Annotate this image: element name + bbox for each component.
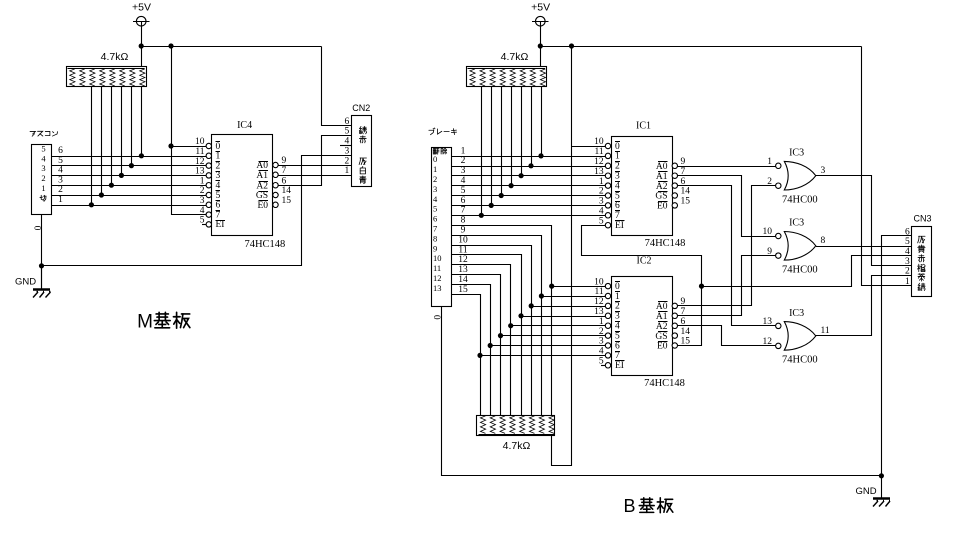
wire J2 pin11 down to IC2 and RN3 bbox=[452, 255, 522, 416]
svg-text:74HC148: 74HC148 bbox=[645, 238, 686, 249]
svg-text:5: 5 bbox=[461, 186, 466, 196]
node RN1-wire1 bbox=[89, 202, 94, 207]
svg-text:9: 9 bbox=[282, 156, 287, 166]
svg-text:11: 11 bbox=[433, 263, 441, 273]
node wire8-IC2 input bbox=[549, 284, 554, 289]
svg-text:14: 14 bbox=[458, 275, 468, 285]
wire gate C output to CN3 pin2 bbox=[816, 276, 912, 336]
node wire15-IC2 input bbox=[477, 353, 482, 358]
resistor network RN3 4.7k (bottom) bbox=[477, 416, 555, 436]
svg-text:9: 9 bbox=[461, 226, 466, 236]
svg-text:2: 2 bbox=[216, 161, 221, 171]
wire J2 pin4 to IC1 input bbox=[451, 185, 606, 187]
wire RN2 pin to brake wire 1 bbox=[541, 87, 543, 157]
svg-text:IC3: IC3 bbox=[789, 148, 804, 159]
IC U-IC1 74HC148 body bbox=[612, 137, 673, 236]
svg-text:12: 12 bbox=[594, 297, 604, 307]
svg-text:10: 10 bbox=[458, 235, 468, 245]
svg-text:7: 7 bbox=[615, 351, 620, 361]
svg-text:7: 7 bbox=[216, 210, 221, 220]
svg-text:2: 2 bbox=[200, 186, 205, 196]
wire GND to CN3 pin6 bbox=[882, 236, 912, 476]
wire J2 pin1 to IC1 input bbox=[451, 156, 606, 158]
wire IC4 EI stub bbox=[202, 224, 206, 226]
svg-text:5: 5 bbox=[905, 237, 910, 247]
node +5V to input 0 junction bbox=[168, 143, 173, 148]
svg-text:GS: GS bbox=[655, 192, 667, 202]
node wire9-IC2 input bbox=[539, 293, 544, 298]
svg-text:13: 13 bbox=[195, 167, 205, 177]
svg-text:2: 2 bbox=[461, 156, 466, 166]
svg-text:6: 6 bbox=[461, 196, 466, 206]
node RN2-wire4 bbox=[509, 183, 514, 188]
node GND junction (M) bbox=[39, 263, 44, 268]
svg-text:8: 8 bbox=[461, 216, 466, 226]
svg-text:IC4: IC4 bbox=[237, 120, 252, 131]
svg-text:0: 0 bbox=[433, 154, 437, 164]
wire gate A output to CN3 pin3 bbox=[816, 176, 912, 266]
pin IC2 output GS (pin 14) bbox=[672, 333, 677, 338]
svg-text:A2: A2 bbox=[656, 322, 668, 332]
wire +5V rail (B) bbox=[541, 46, 862, 48]
svg-text:13: 13 bbox=[594, 307, 604, 317]
svg-text:EI: EI bbox=[615, 361, 624, 371]
svg-text:0: 0 bbox=[615, 282, 620, 292]
wire J1 pin6 to IC4 input bbox=[51, 156, 206, 158]
svg-text:2: 2 bbox=[615, 302, 620, 312]
svg-text:A1: A1 bbox=[656, 172, 668, 182]
wire RN2 pin to brake wire 2 bbox=[531, 87, 533, 167]
wire RN1 pin to wire5 bbox=[131, 87, 133, 166]
svg-text:A2: A2 bbox=[256, 181, 268, 191]
pin IC4 input 2 (pin 12) bbox=[206, 163, 211, 168]
svg-text:0: 0 bbox=[615, 142, 620, 152]
node wire13-IC2 input bbox=[498, 333, 503, 338]
node RN1-wire4 bbox=[119, 173, 124, 178]
wire +5V to IC4 input 0 bbox=[171, 146, 206, 148]
IC U-IC2 74HC148 body bbox=[612, 277, 673, 376]
label B board bbox=[641, 498, 653, 500]
wire IC1 A2 to gate C input 13 bbox=[678, 186, 776, 326]
wire J2 pin10 down to IC2 and RN3 bbox=[452, 246, 532, 416]
svg-text:GS: GS bbox=[256, 191, 268, 201]
wire GND rail to CN2 pin3 bbox=[42, 156, 352, 266]
svg-text:E0: E0 bbox=[257, 201, 268, 211]
wire J1 pin2 to IC4 input bbox=[51, 195, 206, 197]
wire to IC2 input 3 bbox=[521, 316, 606, 318]
svg-text:A1: A1 bbox=[656, 312, 668, 322]
svg-text:1: 1 bbox=[345, 166, 350, 176]
node wire11-IC2 input bbox=[518, 313, 523, 318]
wire +5V rail bbox=[141, 46, 322, 48]
svg-text:12: 12 bbox=[433, 273, 442, 283]
pin IC2 input 1 (pin 11) bbox=[605, 293, 610, 298]
pin IC1 output GS (pin 14) bbox=[672, 193, 677, 198]
svg-text:EI: EI bbox=[615, 221, 624, 231]
pin IC4 input 6 (pin 3) bbox=[206, 202, 211, 207]
svg-text:A2: A2 bbox=[656, 182, 668, 192]
svg-text:2: 2 bbox=[905, 267, 910, 277]
svg-text:11: 11 bbox=[594, 147, 603, 157]
wire +5V rail to CN2 pin6 bbox=[322, 47, 352, 126]
wire IC2 EI stub bbox=[601, 365, 606, 367]
svg-text:6: 6 bbox=[615, 201, 620, 211]
pin IC1 input 5 (pin 2) bbox=[605, 193, 610, 198]
svg-text:2: 2 bbox=[615, 162, 620, 172]
svg-text:4: 4 bbox=[615, 181, 620, 191]
svg-text:12: 12 bbox=[195, 157, 205, 167]
svg-text:A0: A0 bbox=[256, 161, 268, 171]
wire J1 pin5 to IC4 input bbox=[51, 165, 206, 167]
connector J2 brake bbox=[429, 130, 434, 134]
node RN1-wire6 bbox=[139, 153, 144, 158]
svg-text:15: 15 bbox=[282, 196, 292, 206]
pin IC2 input 4 (pin 1) bbox=[605, 323, 610, 328]
svg-text:1: 1 bbox=[615, 292, 620, 302]
svg-text:6: 6 bbox=[282, 176, 287, 186]
svg-text:4: 4 bbox=[599, 207, 604, 217]
svg-text:5: 5 bbox=[345, 127, 350, 137]
svg-text:5: 5 bbox=[41, 144, 45, 154]
wire J2 pin7 to IC1 input bbox=[451, 215, 606, 217]
node RN2-wire6 bbox=[489, 203, 494, 208]
svg-text:E0: E0 bbox=[657, 342, 668, 352]
pin IC4 output E0 (pin 15) bbox=[273, 202, 278, 207]
svg-text:1: 1 bbox=[767, 157, 772, 167]
svg-text:7: 7 bbox=[615, 211, 620, 221]
svg-text:4: 4 bbox=[599, 347, 604, 357]
svg-text:0: 0 bbox=[34, 225, 44, 230]
wire J2 pin6 to IC1 input bbox=[451, 205, 606, 207]
pin IC1 output A1 (pin 7) bbox=[672, 173, 677, 178]
svg-text:5: 5 bbox=[599, 216, 604, 226]
svg-text:3: 3 bbox=[615, 312, 620, 322]
svg-text:13: 13 bbox=[458, 265, 468, 275]
svg-text:EI: EI bbox=[216, 220, 225, 230]
wire to IC2 input 6 bbox=[490, 345, 606, 347]
wire J2 common to GND rail bbox=[442, 307, 882, 476]
svg-text:7: 7 bbox=[461, 206, 466, 216]
svg-text:13: 13 bbox=[594, 167, 604, 177]
svg-text:3: 3 bbox=[345, 146, 350, 156]
svg-text:1: 1 bbox=[216, 152, 221, 162]
svg-text:6: 6 bbox=[58, 146, 63, 156]
svg-text:9: 9 bbox=[681, 157, 686, 167]
svg-text:CN3: CN3 bbox=[913, 213, 931, 223]
svg-text:9: 9 bbox=[433, 243, 437, 253]
svg-text:3: 3 bbox=[599, 337, 604, 347]
svg-text:74HC00: 74HC00 bbox=[782, 265, 818, 276]
pin IC2 output A2 (pin 6) bbox=[672, 323, 677, 328]
wire J2 pin14 down to IC2 and RN3 bbox=[452, 285, 491, 416]
pin IC2 input 2 (pin 12) bbox=[605, 303, 610, 308]
node wire14-IC2 input bbox=[488, 343, 493, 348]
node +5V rail junction C bbox=[538, 43, 543, 48]
wire +5V to rail bbox=[141, 26, 143, 67]
pin IC1 EI bbox=[605, 223, 610, 228]
pin IC1 input 7 (pin 4) bbox=[605, 213, 610, 218]
pin IC4 input 1 (pin 11) bbox=[206, 153, 211, 158]
svg-text:10: 10 bbox=[195, 137, 205, 147]
pin IC2 input 3 (pin 13) bbox=[605, 313, 610, 318]
svg-text:4: 4 bbox=[461, 176, 466, 186]
svg-text:4: 4 bbox=[200, 206, 205, 216]
svg-text:GND: GND bbox=[15, 276, 36, 287]
svg-text:10: 10 bbox=[433, 253, 442, 263]
wire E0 net to CN3 pin4 bbox=[702, 256, 912, 287]
svg-text:4: 4 bbox=[345, 137, 350, 147]
pin IC4 input 7 (pin 4) bbox=[206, 212, 211, 217]
svg-text:11: 11 bbox=[458, 245, 467, 255]
svg-text:3: 3 bbox=[200, 196, 205, 206]
IC U-IC4 74HC148 body bbox=[212, 135, 273, 236]
svg-text:8: 8 bbox=[821, 236, 826, 246]
svg-text:0: 0 bbox=[216, 142, 221, 152]
node +5V rail junction A bbox=[139, 43, 144, 48]
pin IC1 input 1 (pin 11) bbox=[605, 153, 610, 158]
svg-text:12: 12 bbox=[594, 157, 604, 167]
pin IC2 output A0 (pin 9) bbox=[672, 303, 677, 308]
svg-text:IC1: IC1 bbox=[636, 120, 651, 131]
svg-text:+5V: +5V bbox=[132, 2, 151, 14]
wire IC2 A1 to gate B input 9 bbox=[678, 256, 776, 316]
pin IC4 EI bbox=[206, 222, 211, 227]
pin IC4 output A0 (pin 9) bbox=[273, 162, 278, 167]
svg-text:11: 11 bbox=[594, 287, 603, 297]
node E0 net branch bbox=[699, 284, 704, 289]
svg-text:5: 5 bbox=[216, 191, 221, 201]
wire IC1 A1 to gate B input 10 bbox=[678, 176, 776, 237]
pin IC1 output A2 (pin 6) bbox=[672, 183, 677, 188]
connector J1 master controller (mascon) bbox=[30, 131, 35, 134]
svg-text:3: 3 bbox=[433, 184, 437, 194]
pin IC1 input 6 (pin 3) bbox=[605, 203, 610, 208]
pin IC1 input 2 (pin 12) bbox=[605, 163, 610, 168]
wire to IC2 input 4 bbox=[511, 325, 606, 327]
pin IC1 output E0 (pin 15) bbox=[672, 203, 677, 208]
wire RN2 pin to brake wire 6 bbox=[491, 87, 493, 206]
svg-text:1: 1 bbox=[41, 183, 45, 193]
node RN2-wire3 bbox=[519, 173, 524, 178]
wire gate B output to CN3 pin5 bbox=[816, 246, 912, 248]
svg-text:10: 10 bbox=[763, 227, 773, 237]
svg-text:GS: GS bbox=[655, 332, 667, 342]
svg-text:IC2: IC2 bbox=[637, 256, 652, 267]
svg-text:1: 1 bbox=[905, 277, 910, 287]
wire RN1 pin to wire1 bbox=[91, 87, 93, 206]
wire J1 pin1 to IC4 input bbox=[51, 205, 206, 207]
svg-text:10: 10 bbox=[594, 277, 604, 287]
svg-text:IC3: IC3 bbox=[789, 308, 804, 319]
node +5V rail junction B bbox=[168, 43, 173, 48]
wire to IC2 input 5 bbox=[501, 335, 606, 337]
svg-text:1: 1 bbox=[58, 195, 63, 205]
wire +5V to IC1 input 0 bbox=[572, 146, 606, 148]
pin IC4 input 0 (pin 10) bbox=[206, 143, 211, 148]
svg-text:3: 3 bbox=[58, 175, 63, 185]
wire to IC2 input 1 bbox=[542, 296, 606, 298]
svg-text:7: 7 bbox=[433, 224, 437, 234]
wire CN2 pin4 stub bbox=[340, 145, 351, 147]
wire J1 common down bbox=[41, 215, 43, 290]
svg-text:11: 11 bbox=[195, 147, 204, 157]
node GND junction (B) bbox=[879, 473, 884, 478]
svg-text:13: 13 bbox=[433, 283, 442, 293]
svg-text:3: 3 bbox=[615, 172, 620, 182]
node RN1-wire5 bbox=[129, 163, 134, 168]
svg-text:B: B bbox=[623, 496, 635, 516]
svg-text:2: 2 bbox=[433, 174, 437, 184]
wire J2 pin12 down to IC2 and RN3 bbox=[452, 265, 511, 416]
wire J2 pin15 down to IC2 and RN3 bbox=[452, 295, 481, 416]
wire RN2 pin to brake wire 3 bbox=[521, 87, 523, 176]
wire J2 pin5 to IC1 input bbox=[451, 195, 606, 197]
wire RN1 pin to wire2 bbox=[101, 87, 103, 196]
wire IC2 A2 to gate C input 12 bbox=[678, 326, 776, 346]
svg-text:3: 3 bbox=[905, 257, 910, 267]
svg-text:6: 6 bbox=[905, 227, 910, 237]
svg-text:3: 3 bbox=[599, 197, 604, 207]
node RN2-wire2 bbox=[528, 163, 533, 168]
svg-text:14: 14 bbox=[681, 327, 691, 337]
svg-text:1: 1 bbox=[200, 176, 205, 186]
pin IC1 input 0 (pin 10) bbox=[605, 143, 610, 148]
svg-text:5: 5 bbox=[615, 191, 620, 201]
svg-text:4.7kΩ: 4.7kΩ bbox=[501, 51, 529, 63]
wire J2 pin2 to IC1 input bbox=[451, 166, 606, 168]
wire J2 pin3 to IC1 input bbox=[451, 175, 606, 177]
svg-text:E0: E0 bbox=[657, 202, 668, 212]
svg-text:6: 6 bbox=[433, 214, 437, 224]
wire RN1 pin to wire3 bbox=[111, 87, 113, 186]
svg-text:15: 15 bbox=[681, 197, 691, 207]
node wire10-IC2 input bbox=[529, 303, 534, 308]
wire RN1 pin to wire4 bbox=[121, 87, 123, 176]
node wire12-IC2 input bbox=[508, 323, 513, 328]
svg-text:1: 1 bbox=[599, 317, 604, 327]
pin IC1 input 3 (pin 13) bbox=[605, 173, 610, 178]
svg-text:14: 14 bbox=[681, 187, 691, 197]
svg-text:4: 4 bbox=[216, 181, 221, 191]
svg-text:3: 3 bbox=[41, 163, 45, 173]
svg-text:8: 8 bbox=[433, 233, 437, 243]
svg-text:74HC148: 74HC148 bbox=[644, 378, 685, 389]
svg-text:+5V: +5V bbox=[531, 2, 550, 14]
pin IC4 input 4 (pin 1) bbox=[206, 183, 211, 188]
wire +5V to rail (B) bbox=[540, 26, 542, 67]
svg-text:A0: A0 bbox=[656, 162, 668, 172]
svg-text:7: 7 bbox=[282, 166, 287, 176]
pin IC2 input 6 (pin 3) bbox=[605, 343, 610, 348]
wire to IC2 input 2 bbox=[531, 306, 606, 308]
wire IC4 A1 to CN2 pin1 bbox=[278, 175, 351, 177]
labels CN2 wire colors bbox=[360, 126, 361, 128]
pin IC2 input 0 (pin 10) bbox=[605, 283, 610, 288]
wire +5V long drop to bottom resistor network bbox=[552, 47, 572, 466]
pin IC4 output A2 (pin 6) bbox=[273, 183, 278, 188]
wire IC1 EI to IC2 E0 cascade bbox=[582, 226, 702, 346]
svg-text:5: 5 bbox=[615, 331, 620, 341]
label kiri (off position) bbox=[40, 196, 43, 198]
svg-text:14: 14 bbox=[282, 186, 292, 196]
wire J2 pin8 down to IC2 and RN3 bbox=[452, 226, 552, 416]
svg-text:1: 1 bbox=[599, 177, 604, 187]
svg-text:M: M bbox=[137, 312, 153, 333]
svg-text:3: 3 bbox=[461, 166, 466, 176]
wire J1 pin4 to IC4 input bbox=[51, 175, 206, 177]
label kaijo (release) bbox=[433, 148, 435, 153]
pin IC1 output A0 (pin 9) bbox=[672, 163, 677, 168]
svg-text:2: 2 bbox=[599, 187, 604, 197]
wire RN2 pin to brake wire 7 bbox=[481, 87, 483, 216]
svg-text:A1: A1 bbox=[256, 171, 268, 181]
svg-text:3: 3 bbox=[821, 166, 826, 176]
wire J2 pin13 down to IC2 and RN3 bbox=[452, 275, 501, 416]
pin IC2 output E0 (pin 15) bbox=[672, 343, 677, 348]
svg-text:2: 2 bbox=[345, 156, 350, 166]
svg-text:6: 6 bbox=[345, 117, 350, 127]
svg-text:2: 2 bbox=[41, 173, 45, 183]
svg-text:74HC00: 74HC00 bbox=[782, 355, 818, 366]
wire IC1 A0 to gate A input 1 bbox=[678, 166, 776, 168]
svg-text:1: 1 bbox=[615, 152, 620, 162]
svg-text:A0: A0 bbox=[656, 302, 668, 312]
svg-text:4: 4 bbox=[905, 247, 910, 257]
pin IC4 input 3 (pin 13) bbox=[206, 173, 211, 178]
svg-text:2: 2 bbox=[599, 327, 604, 337]
pin IC4 output A1 (pin 7) bbox=[273, 172, 278, 177]
svg-text:3: 3 bbox=[216, 171, 221, 181]
pin IC2 input 5 (pin 2) bbox=[605, 333, 610, 338]
node RN1-wire2 bbox=[99, 192, 104, 197]
wire to IC2 input 7 bbox=[480, 355, 606, 357]
pin IC2 EI bbox=[605, 363, 610, 368]
pin IC4 input 5 (pin 2) bbox=[206, 192, 211, 197]
svg-text:4: 4 bbox=[58, 166, 63, 176]
labels CN3 wire colors bbox=[919, 235, 926, 237]
svg-text:4.7kΩ: 4.7kΩ bbox=[503, 440, 531, 452]
svg-text:12: 12 bbox=[458, 255, 468, 265]
svg-text:1: 1 bbox=[461, 146, 466, 156]
wire +5V drop to IC4 inputs 0/7 bbox=[172, 47, 207, 215]
svg-text:4.7kΩ: 4.7kΩ bbox=[101, 51, 129, 63]
svg-text:74HC00: 74HC00 bbox=[782, 195, 818, 206]
svg-text:1: 1 bbox=[433, 164, 437, 174]
node RN1-wire3 bbox=[109, 183, 114, 188]
wire to IC2 input 0 bbox=[552, 286, 606, 288]
svg-text:5: 5 bbox=[433, 204, 437, 214]
node RN2-wire1 bbox=[538, 153, 543, 158]
wire +5V rail down to CN3 pin1 bbox=[862, 47, 912, 286]
svg-text:4: 4 bbox=[615, 322, 620, 332]
wire IC2 A0 to gate A input 2 bbox=[678, 186, 776, 306]
wire J1 pin3 to IC4 input bbox=[51, 185, 206, 187]
label M board bbox=[156, 313, 168, 315]
svg-text:2: 2 bbox=[58, 185, 63, 195]
pin IC4 output GS (pin 14) bbox=[273, 192, 278, 197]
svg-text:15: 15 bbox=[458, 285, 468, 295]
wire RN2 pin to brake wire 5 bbox=[501, 87, 503, 196]
svg-text:5: 5 bbox=[58, 156, 63, 166]
pin IC2 output A1 (pin 7) bbox=[672, 313, 677, 318]
svg-text:CN2: CN2 bbox=[352, 103, 370, 113]
svg-text:10: 10 bbox=[594, 137, 604, 147]
node RN2-wire5 bbox=[499, 193, 504, 198]
wire IC4 A0 to CN2 pin2 bbox=[278, 165, 351, 167]
node +5V rail junction D bbox=[569, 43, 574, 48]
pin IC2 input 7 (pin 4) bbox=[605, 353, 610, 358]
node RN2-wire7 bbox=[479, 213, 484, 218]
